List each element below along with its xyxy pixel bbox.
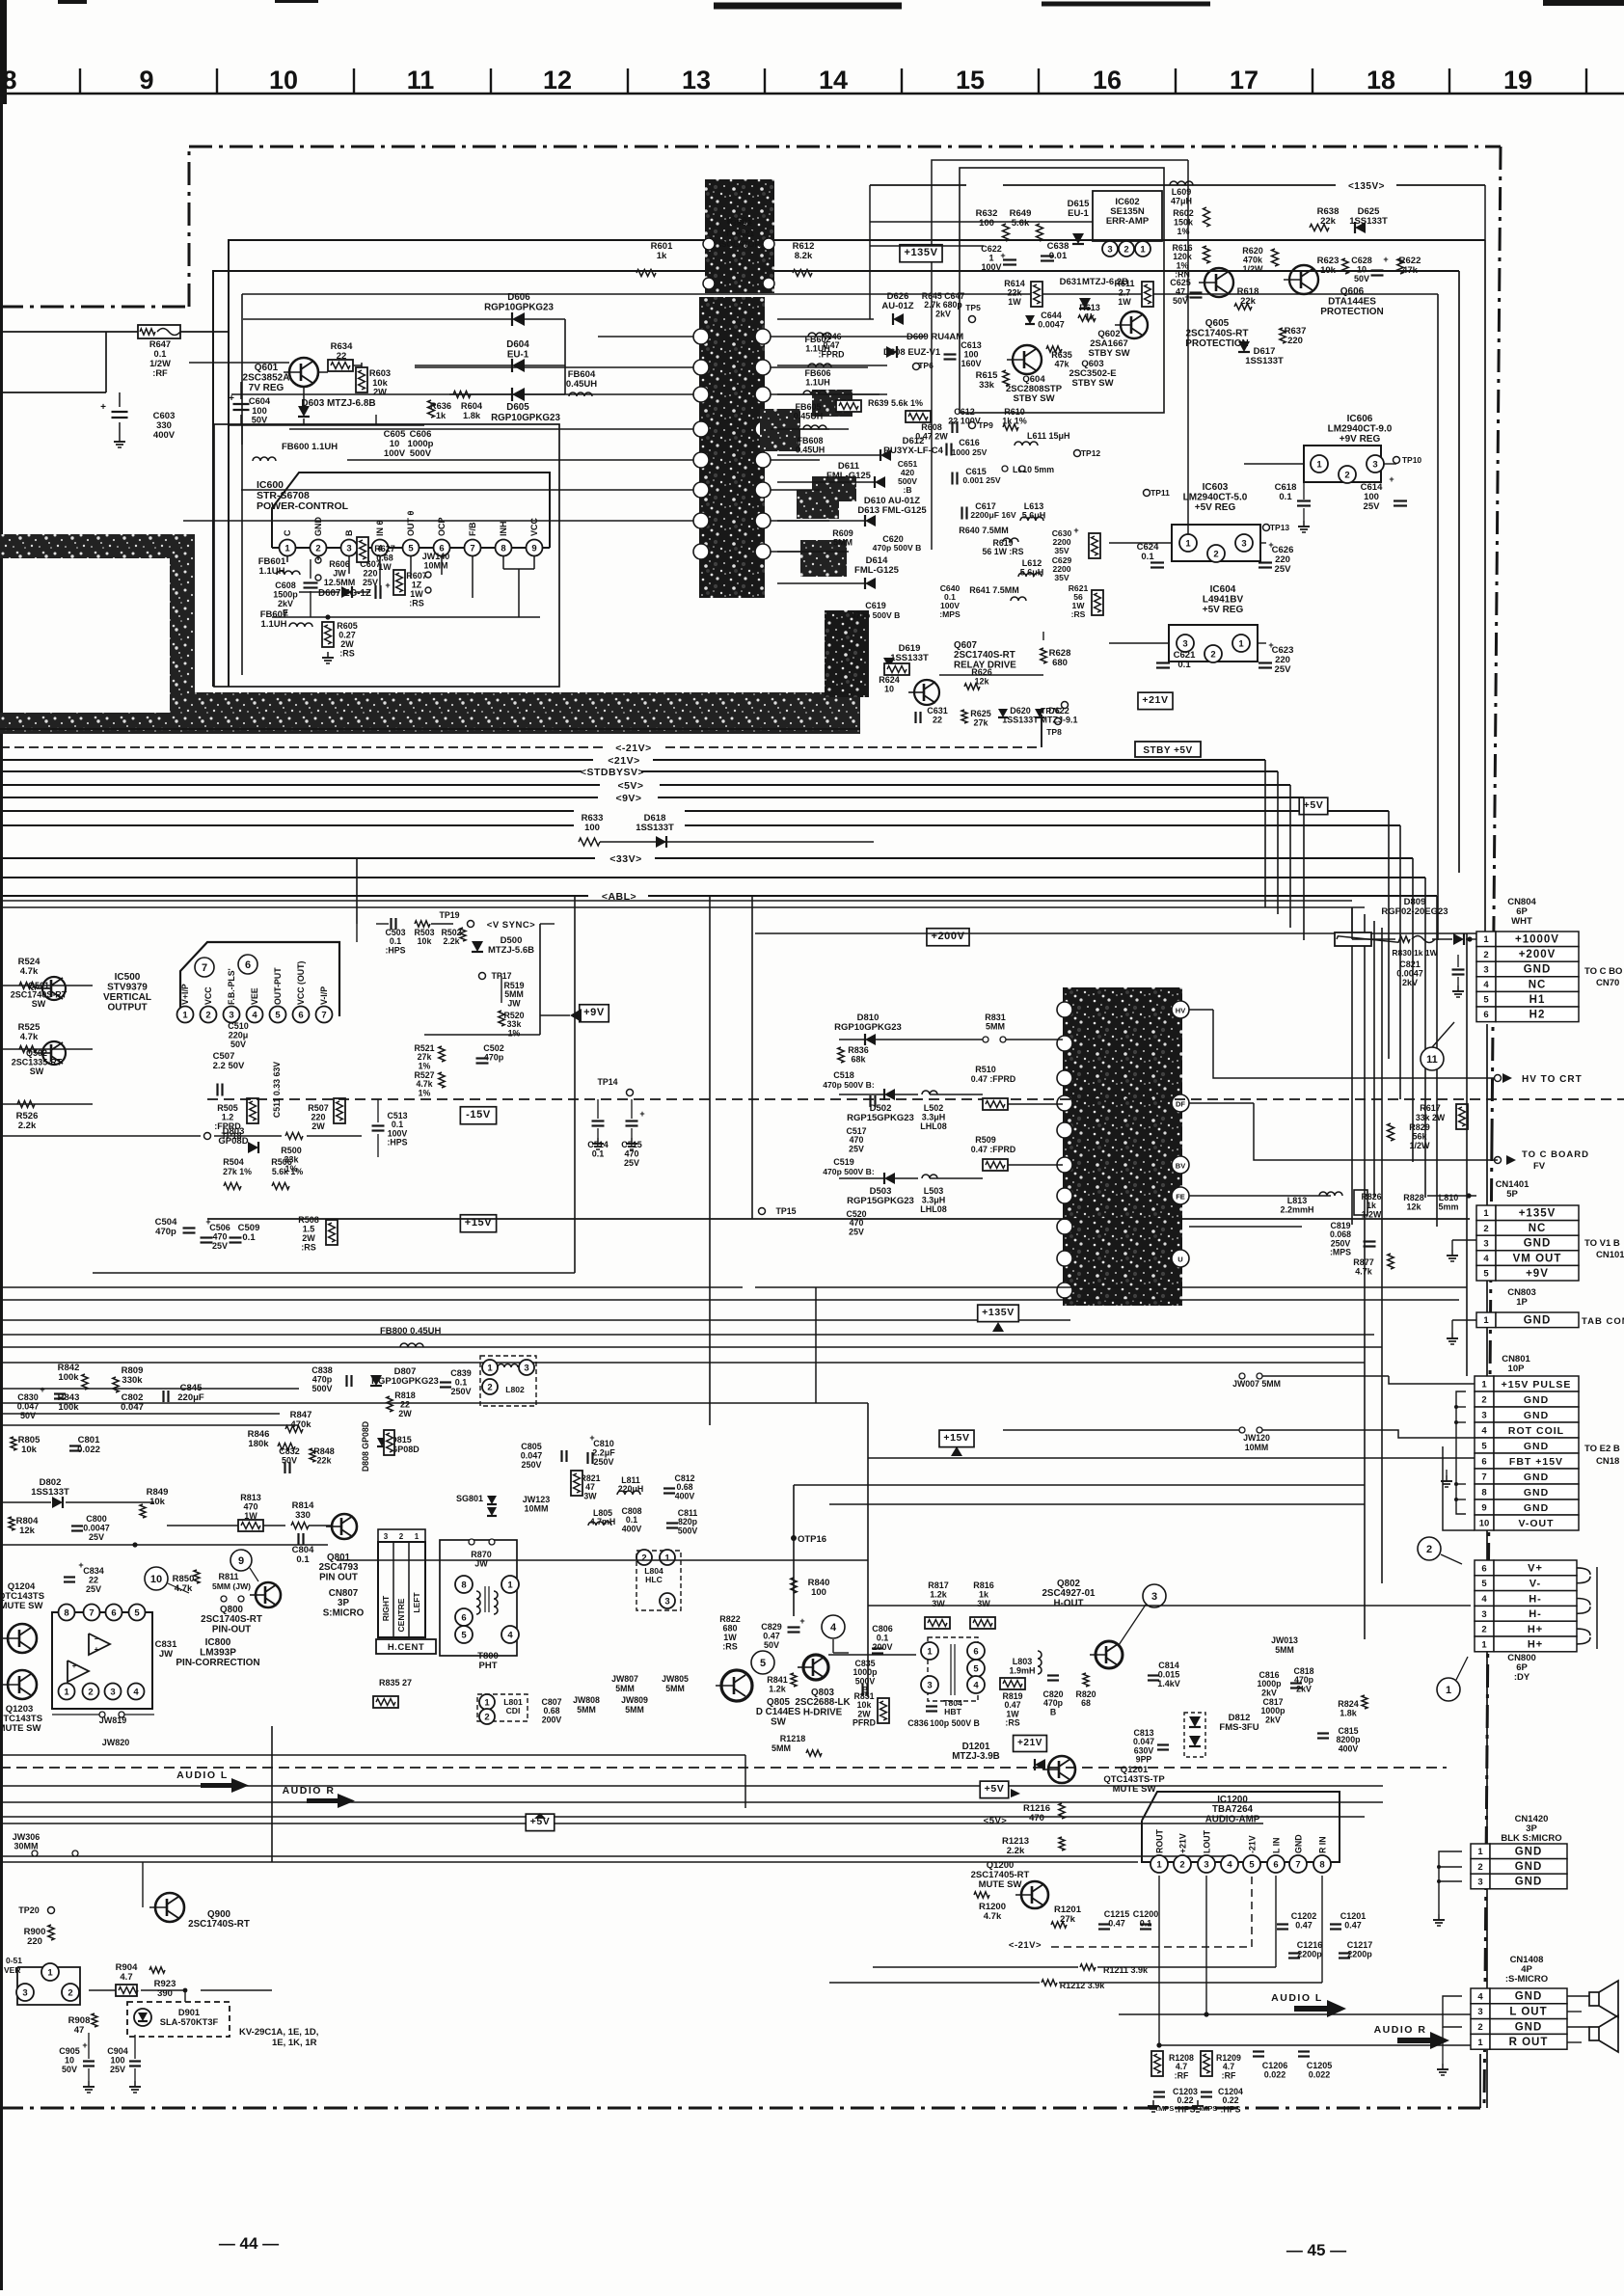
svg-text:TP14: TP14: [597, 1077, 617, 1087]
svg-text:H+: H+: [1528, 1639, 1543, 1651]
svg-text:3: 3: [1477, 2007, 1482, 2017]
svg-text:U: U: [1177, 1256, 1182, 1264]
svg-text:1: 1: [484, 1697, 490, 1708]
svg-text:C622: C622: [981, 244, 1002, 254]
svg-text:4: 4: [973, 1680, 979, 1690]
wire: [441, 556, 443, 575]
svg-text:3: 3: [1107, 244, 1112, 255]
wire h rails lower: [337, 1559, 868, 1561]
label +135V boxed: [900, 245, 942, 262]
svg-text:TP5: TP5: [965, 303, 981, 312]
svg-text:1.1UH: 1.1UH: [261, 619, 287, 630]
wire v-out bend: [1443, 1446, 1475, 1530]
power section inner box 2: [242, 293, 1438, 295]
test point TP15: [759, 1208, 766, 1215]
wire bottom rails: [867, 1403, 869, 1697]
svg-text:2W: 2W: [302, 1233, 315, 1243]
svg-text:10: 10: [1357, 265, 1367, 275]
svg-text:C604: C604: [249, 396, 271, 406]
svg-text:JW808: JW808: [573, 1695, 600, 1705]
svg-text:400V: 400V: [153, 430, 176, 441]
svg-text:+21V: +21V: [1178, 1833, 1188, 1853]
svg-text:5.6k: 5.6k: [1012, 218, 1030, 229]
callout 3: [1143, 1584, 1166, 1607]
svg-text:2.2mmH: 2.2mmH: [1280, 1205, 1313, 1215]
wire: [0, 1861, 1138, 1863]
svg-text:50V: 50V: [764, 1640, 779, 1650]
resistor R607: [393, 570, 405, 595]
transistor Q606: [1289, 265, 1318, 294]
svg-text:+: +: [82, 2040, 87, 2050]
bus wire y841: [0, 810, 1389, 812]
IC1200 box: [1142, 1792, 1340, 1862]
svg-text:R504: R504: [223, 1157, 244, 1167]
svg-text:+: +: [1000, 251, 1005, 260]
svg-text:400V: 400V: [622, 1524, 642, 1533]
svg-text:5: 5: [1249, 1859, 1255, 1870]
svg-text:2SC1740S-RT: 2SC1740S-RT: [1185, 329, 1248, 339]
svg-text:50V: 50V: [1354, 274, 1369, 284]
svg-text:C631: C631: [927, 706, 948, 716]
svg-text:NC: NC: [1529, 979, 1547, 990]
svg-text:0.45UH: 0.45UH: [566, 379, 597, 390]
svg-text:220: 220: [1287, 336, 1303, 346]
IC602 pins: [1102, 241, 1118, 257]
svg-text:C800: C800: [86, 1514, 107, 1524]
svg-text:100p 500V B: 100p 500V B: [930, 1718, 980, 1728]
wire: [0, 1424, 299, 1426]
svg-text:STBY SW: STBY SW: [1088, 348, 1129, 359]
svg-text:R509: R509: [975, 1135, 996, 1145]
svg-text:V+I/P: V+I/P: [180, 984, 190, 1005]
svg-text:+21V: +21V: [1142, 694, 1168, 706]
svg-text:220: 220: [363, 569, 377, 579]
wire: [272, 616, 540, 618]
svg-text:1: 1: [487, 1363, 493, 1373]
svg-text:0.47 :FPRD: 0.47 :FPRD: [971, 1074, 1015, 1084]
svg-text:22k: 22k: [1007, 288, 1022, 298]
svg-text:1: 1: [1483, 1315, 1489, 1326]
svg-text:Q601: Q601: [255, 363, 279, 373]
svg-text:JW123: JW123: [523, 1495, 551, 1504]
svg-text:LHL08: LHL08: [920, 1121, 947, 1131]
svg-text:TP11: TP11: [1150, 488, 1170, 498]
svg-text:100V: 100V: [384, 448, 406, 459]
IC601 pins: [703, 238, 715, 250]
svg-text:2: 2: [1483, 1224, 1488, 1234]
svg-text:1.1UH: 1.1UH: [805, 378, 830, 388]
svg-text:0-51: 0-51: [6, 1956, 22, 1965]
wire: [0, 906, 1365, 908]
svg-text:MUTE SW: MUTE SW: [1113, 1784, 1156, 1795]
svg-text:TP10: TP10: [1402, 455, 1422, 465]
svg-text:2: 2: [1481, 1395, 1486, 1406]
svg-text:3: 3: [1483, 964, 1488, 975]
svg-text:0.1: 0.1: [455, 1378, 468, 1388]
wire: [1495, 1075, 1502, 1082]
svg-text:1W: 1W: [1008, 297, 1021, 307]
svg-text:H-: H-: [1529, 1593, 1542, 1605]
svg-text:33k 2W: 33k 2W: [1416, 1113, 1446, 1122]
svg-text:JW120: JW120: [1243, 1433, 1270, 1443]
svg-text:TP19: TP19: [439, 910, 459, 920]
svg-text:PROTECTION: PROTECTION: [1320, 307, 1384, 317]
svg-text:18: 18: [1367, 66, 1395, 95]
ground: [1452, 1319, 1476, 1321]
svg-text:R609: R609: [832, 528, 853, 538]
test point TP8: [1055, 718, 1062, 725]
wire: [201, 1989, 272, 1991]
svg-text:4.7k: 4.7k: [20, 1032, 39, 1042]
svg-text:+: +: [1268, 640, 1273, 650]
svg-text:1.2k: 1.2k: [930, 1590, 948, 1600]
wire: [0, 1388, 299, 1390]
svg-text:R831: R831: [985, 1013, 1006, 1022]
svg-text:AUDIO-AMP: AUDIO-AMP: [1205, 1814, 1260, 1824]
svg-text:1SS133T: 1SS133T: [636, 823, 674, 833]
svg-text:3: 3: [664, 1596, 669, 1607]
svg-text:4: 4: [1483, 980, 1489, 990]
svg-text:8: 8: [501, 543, 505, 554]
svg-text:HBT: HBT: [944, 1707, 961, 1716]
svg-text:470: 470: [1029, 1813, 1044, 1823]
svg-text:3: 3: [1481, 1609, 1486, 1620]
svg-text:R828: R828: [1403, 1193, 1424, 1202]
connector CN1420 table: [1471, 1844, 1490, 1859]
svg-text:2: 2: [68, 1987, 72, 1998]
svg-text:11: 11: [1426, 1054, 1438, 1066]
wire: [0, 1823, 1263, 1824]
svg-text:HV: HV: [1176, 1007, 1185, 1015]
svg-text:VER: VER: [4, 1965, 20, 1975]
svg-text:GND: GND: [1524, 1502, 1549, 1514]
flyback right pins: [1172, 1001, 1189, 1018]
svg-text:5MM: 5MM: [625, 1705, 644, 1715]
wire: [574, 897, 576, 1273]
svg-text:6: 6: [1273, 1859, 1278, 1870]
svg-text:+21V: +21V: [1017, 1738, 1042, 1748]
svg-text:+: +: [95, 1645, 99, 1654]
callout 1: [1437, 1678, 1460, 1701]
wire: [777, 520, 864, 522]
wire: [839, 1177, 883, 1179]
svg-text:AUDIO R: AUDIO R: [1374, 2024, 1427, 2036]
wire t601 left links: [598, 336, 693, 338]
svg-text:L613: L613: [1024, 501, 1044, 511]
svg-text:H-OUT: H-OUT: [1053, 1598, 1083, 1608]
svg-text:16: 16: [1093, 66, 1122, 95]
svg-text:+: +: [72, 1661, 77, 1670]
svg-text:STV9379: STV9379: [107, 983, 148, 993]
svg-text:C1206: C1206: [1262, 2061, 1288, 2070]
test point TP9: [969, 422, 976, 429]
wire: [564, 319, 566, 394]
node -21V: [603, 740, 663, 754]
svg-text:JW140: JW140: [422, 552, 450, 561]
svg-text:250V: 250V: [521, 1460, 541, 1470]
label +15V boxed 2: [939, 1430, 974, 1447]
svg-text:0.1: 0.1: [592, 1149, 605, 1159]
svg-text:C506: C506: [209, 1223, 230, 1232]
DY coil hooks: [1577, 1568, 1590, 1575]
svg-text:EU-1: EU-1: [1068, 208, 1089, 219]
svg-text:1.5: 1.5: [303, 1225, 315, 1234]
svg-text:5.6μH: 5.6μH: [1022, 511, 1046, 521]
diode D809 symbol: [1453, 933, 1464, 945]
svg-text:PIN OUT: PIN OUT: [319, 1572, 358, 1582]
CN1408 gnd tie: [1443, 1996, 1462, 2027]
wire: [1351, 907, 1353, 1225]
svg-text:VERTICAL: VERTICAL: [103, 992, 151, 1003]
svg-text:FML-G125: FML-G125: [854, 565, 900, 576]
svg-text:D622: D622: [1048, 706, 1069, 716]
IC800 pins bottom: [59, 1684, 75, 1700]
svg-text:1%: 1%: [419, 1061, 431, 1070]
dark band left upper: [0, 534, 195, 558]
svg-text:+: +: [100, 402, 106, 413]
dark band vertical connector: [170, 534, 195, 719]
callout 2: [1418, 1537, 1441, 1560]
svg-text:RGP02-20EG23: RGP02-20EG23: [1381, 906, 1448, 917]
svg-text:H-: H-: [1529, 1608, 1542, 1620]
svg-text::RF: :RF: [152, 368, 168, 378]
svg-text:C832: C832: [279, 1446, 300, 1456]
wire: [348, 556, 350, 574]
svg-text:+: +: [639, 1109, 644, 1119]
svg-text:<9V>: <9V>: [615, 793, 641, 804]
svg-text:0.27: 0.27: [338, 631, 356, 640]
svg-text:IN θ: IN θ: [375, 520, 385, 536]
svg-text:2: 2: [399, 1532, 404, 1541]
svg-text:2: 2: [1477, 1862, 1482, 1873]
svg-text:C1201: C1201: [1340, 1911, 1367, 1921]
bus wire -21V (dashed): [0, 746, 1042, 748]
svg-text:FB800 0.45UH: FB800 0.45UH: [380, 1326, 442, 1337]
wire: [286, 556, 288, 562]
bus wire y756: [0, 728, 860, 730]
svg-text:4: 4: [1227, 1859, 1232, 1870]
svg-text:6: 6: [1481, 1563, 1486, 1574]
svg-text:FMS-3FU: FMS-3FU: [1219, 1722, 1259, 1733]
wire: [0, 1346, 1382, 1348]
svg-text:TO C BO: TO C BO: [1584, 966, 1622, 977]
svg-text:L802: L802: [505, 1385, 525, 1394]
svg-text:2: 2: [487, 1382, 492, 1392]
svg-text:H1: H1: [1529, 994, 1546, 1006]
wire: [89, 1989, 116, 1991]
svg-text:5MM: 5MM: [577, 1705, 596, 1715]
svg-text:3W: 3W: [583, 1491, 597, 1500]
svg-text:25V: 25V: [86, 1584, 101, 1594]
svg-text:470: 470: [243, 1502, 257, 1512]
svg-text:1E, 1K, 1R: 1E, 1K, 1R: [272, 2038, 317, 2048]
svg-text:4.7k: 4.7k: [984, 1911, 1002, 1922]
svg-text:PIN-OUT: PIN-OUT: [212, 1624, 251, 1634]
diode D607: [341, 586, 352, 598]
wire +15V line: [207, 1218, 1470, 1220]
svg-text:10MM: 10MM: [423, 561, 447, 571]
svg-text:1Z: 1Z: [412, 581, 422, 590]
svg-text:2: 2: [315, 543, 320, 554]
svg-text:10P: 10P: [1508, 1364, 1526, 1374]
svg-text:1/2W: 1/2W: [1242, 264, 1263, 274]
wire: [0, 1816, 1365, 1818]
svg-text:0.022: 0.022: [1309, 2070, 1331, 2080]
ground: [1446, 1470, 1448, 1475]
wire: [0, 1785, 1383, 1787]
wire: [539, 924, 541, 1035]
svg-text:JW: JW: [507, 998, 521, 1008]
svg-text:TO V1 B: TO V1 B: [1584, 1238, 1620, 1249]
svg-text:10MM: 10MM: [1245, 1443, 1268, 1452]
callout 9: [230, 1550, 252, 1571]
zener D603: [298, 406, 310, 417]
svg-text:6: 6: [245, 959, 251, 971]
svg-text:250V: 250V: [593, 1457, 613, 1467]
label +21V hex: [1014, 1736, 1047, 1752]
label +15V boxed: [460, 1215, 496, 1232]
svg-text:1: 1: [1156, 1859, 1162, 1870]
svg-text:3: 3: [22, 1987, 27, 1998]
svg-text:1%: 1%: [419, 1088, 431, 1097]
remote receiver box: [17, 1967, 80, 2005]
svg-text::RS: :RS: [409, 599, 424, 608]
transistor Q607: [914, 680, 939, 705]
bus wire y800: [0, 770, 1278, 772]
svg-text:INH: INH: [499, 522, 508, 537]
svg-text:2: 2: [1426, 1544, 1432, 1555]
svg-text:L610 5mm: L610 5mm: [1013, 465, 1054, 474]
svg-text:GND: GND: [313, 517, 323, 537]
svg-text:2kV: 2kV: [1265, 1715, 1281, 1724]
svg-text:5: 5: [1483, 995, 1489, 1006]
svg-text:D808 GP08D: D808 GP08D: [361, 1421, 370, 1472]
svg-text:+5V REG: +5V REG: [1195, 502, 1236, 513]
node 9V: [598, 790, 658, 804]
wire: [1041, 715, 1042, 747]
svg-text:R647: R647: [149, 339, 171, 349]
wire: [361, 363, 363, 367]
bottom dash-dot border: [0, 2107, 1480, 2110]
svg-text:R824: R824: [1338, 1699, 1359, 1709]
svg-text:C905: C905: [59, 2046, 80, 2056]
svg-text:4: 4: [1481, 1594, 1487, 1605]
svg-text:1.2k: 1.2k: [769, 1685, 787, 1694]
svg-text:+15V: +15V: [943, 1432, 969, 1444]
svg-text:1: 1: [664, 1553, 670, 1563]
svg-text:VM OUT: VM OUT: [1513, 1253, 1562, 1264]
svg-text:R640 7.5MM: R640 7.5MM: [959, 526, 1009, 535]
svg-text:100V: 100V: [981, 262, 1001, 272]
test point TP10: [1394, 457, 1400, 464]
IC600 pins: [272, 547, 550, 549]
svg-text:330: 330: [295, 1510, 311, 1521]
svg-text:D608 EUZ-V1: D608 EUZ-V1: [883, 347, 941, 358]
svg-text:DTA144ES: DTA144ES: [1328, 297, 1376, 308]
svg-text:IC500: IC500: [115, 972, 141, 983]
svg-text:C814: C814: [1158, 1661, 1179, 1670]
T601 left pins: [693, 329, 709, 344]
jumper circles: [469, 1539, 474, 1545]
TO C BOARD FV: [1495, 1157, 1502, 1164]
transistor Q501: [42, 977, 66, 1000]
wire: [0, 1362, 1365, 1364]
svg-text:+15V PULSE: +15V PULSE: [1502, 1379, 1572, 1391]
svg-text:0.1: 0.1: [154, 349, 167, 359]
wire: [0, 1334, 1374, 1336]
svg-text:2W: 2W: [311, 1121, 325, 1131]
wire: [1479, 2054, 1481, 2108]
svg-text:F/B: F/B: [468, 522, 477, 536]
svg-text:3: 3: [1241, 538, 1246, 549]
svg-text:2.2 50V: 2.2 50V: [213, 1061, 245, 1071]
svg-text:— 45 —: — 45 —: [1286, 2241, 1346, 2259]
svg-text:1: 1: [1477, 1847, 1483, 1857]
svg-text:ROT COIL: ROT COIL: [1508, 1425, 1564, 1437]
wire: [1352, 938, 1395, 940]
svg-text:1.2: 1.2: [222, 1113, 234, 1122]
svg-text:C810: C810: [593, 1439, 614, 1448]
bus wire y910: [0, 877, 1425, 878]
svg-text:C829: C829: [761, 1622, 782, 1632]
svg-text:200V: 200V: [542, 1715, 562, 1724]
svg-text:220: 220: [27, 1936, 42, 1947]
svg-text:5MM: 5MM: [986, 1022, 1005, 1032]
svg-text:R505: R505: [217, 1103, 238, 1113]
svg-text::RF: :RF: [1175, 2070, 1189, 2080]
wire audio l: [1119, 2013, 1471, 2015]
transistor Q502: [42, 1041, 66, 1065]
svg-text:S:MICRO: S:MICRO: [323, 1607, 365, 1618]
svg-text:LM393P: LM393P: [200, 1648, 236, 1659]
svg-text:2.2k: 2.2k: [18, 1121, 37, 1131]
svg-text:8: 8: [64, 1607, 68, 1618]
svg-text:+200V: +200V: [931, 931, 964, 942]
svg-text:100: 100: [979, 218, 994, 229]
svg-text:500V: 500V: [410, 448, 432, 459]
svg-text:R811: R811: [218, 1572, 238, 1581]
svg-text:50V: 50V: [62, 2065, 77, 2074]
svg-text:R613: R613: [1079, 303, 1100, 312]
wire: [755, 932, 1476, 934]
svg-text:6: 6: [298, 1010, 303, 1020]
svg-text:PIN-CORRECTION: PIN-CORRECTION: [176, 1658, 259, 1668]
dashed -21V audio line: [0, 1767, 1447, 1769]
wire: [939, 674, 1043, 676]
svg-text:1SS133T: 1SS133T: [31, 1487, 69, 1498]
svg-text:R816: R816: [973, 1580, 994, 1590]
svg-text:−: −: [95, 1634, 99, 1643]
svg-text:GND: GND: [1524, 1394, 1549, 1406]
svg-text:12: 12: [543, 66, 572, 95]
svg-text:4: 4: [830, 1622, 837, 1634]
svg-text:7V REG: 7V REG: [249, 383, 284, 393]
svg-text:10: 10: [884, 685, 894, 694]
svg-text:25V: 25V: [849, 1227, 864, 1236]
svg-text:680: 680: [722, 1624, 737, 1634]
power section inner box: [213, 271, 1459, 687]
svg-text:100: 100: [811, 1587, 826, 1598]
svg-text:L810: L810: [1439, 1193, 1459, 1202]
svg-text:C1205: C1205: [1307, 2061, 1333, 2070]
svg-text:LEFT: LEFT: [412, 1592, 421, 1613]
svg-text:R508: R508: [298, 1215, 319, 1225]
svg-text:C612: C612: [954, 407, 975, 417]
diode D605: [512, 388, 525, 401]
wire: [832, 1639, 834, 1653]
svg-text:6: 6: [973, 1646, 978, 1657]
svg-text:RGP10GPKG23: RGP10GPKG23: [484, 302, 554, 312]
